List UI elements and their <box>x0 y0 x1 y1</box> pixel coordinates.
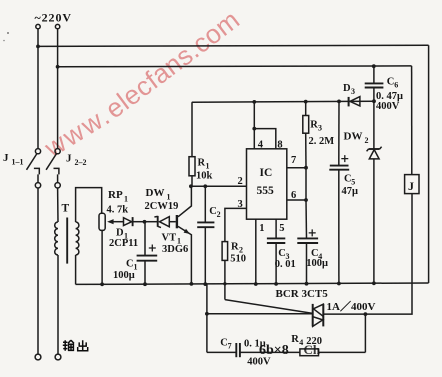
wire rail2 top <box>58 65 412 68</box>
wire right outer vertical <box>428 45 430 283</box>
svg-text:10k: 10k <box>196 170 213 181</box>
svg-text:8: 8 <box>277 140 282 151</box>
wire primary top <box>57 188 59 222</box>
svg-text:DW: DW <box>344 131 363 143</box>
svg-text:1: 1 <box>206 162 210 171</box>
svg-text:510: 510 <box>230 253 246 264</box>
wire right inner vertical <box>411 66 413 175</box>
speck <box>3 40 5 42</box>
speck <box>7 32 9 34</box>
thyristor BCR 3CT5 <box>313 304 324 327</box>
switch J1-1 <box>27 149 41 188</box>
svg-text:~220V: ~220V <box>35 11 72 25</box>
pin 8 wire <box>254 129 275 149</box>
svg-text:J: J <box>408 179 414 193</box>
node pin4 tap <box>252 100 256 104</box>
terminal L1 <box>36 24 40 28</box>
capacitor C5 <box>338 101 340 165</box>
svg-text:DW: DW <box>146 187 165 199</box>
capacitor C2 <box>204 186 206 222</box>
wire Vcc rail <box>192 101 374 102</box>
node pin7 <box>304 166 308 170</box>
pin 6 wire <box>287 199 306 201</box>
svg-text:1A／400V: 1A／400V <box>327 300 376 313</box>
svg-text:2–2: 2–2 <box>75 158 87 167</box>
svg-text:R: R <box>310 120 318 131</box>
svg-text:2CP11: 2CP11 <box>109 238 138 249</box>
node R3 tap <box>304 100 308 104</box>
svg-text:J: J <box>66 153 72 165</box>
wire pin2 horizontal <box>191 185 247 187</box>
output terminal right <box>55 354 61 360</box>
node pin4/8 <box>252 127 256 131</box>
transformer core <box>66 218 68 264</box>
pin 5 wire <box>275 219 277 238</box>
node C6 rail2 <box>372 64 376 68</box>
node C1 rail <box>143 282 147 286</box>
svg-text:C: C <box>126 259 134 270</box>
wiper arrow RP1 <box>113 221 124 223</box>
wire triac anode <box>207 313 313 315</box>
wire bottom rail <box>76 283 429 284</box>
svg-text:6b×8: 6b×8 <box>259 343 289 358</box>
node C5 rail <box>337 282 341 286</box>
svg-text:2: 2 <box>217 210 221 219</box>
svg-text:4. 7k: 4. 7k <box>107 205 129 216</box>
transformer T primary <box>55 222 58 255</box>
pin 1 wire <box>255 219 257 284</box>
node C2 rail <box>203 282 207 286</box>
wire left down to output <box>37 188 39 354</box>
svg-text:RP: RP <box>108 189 123 201</box>
svg-text:3: 3 <box>238 199 243 210</box>
svg-text:1: 1 <box>124 195 128 204</box>
svg-text:3: 3 <box>318 124 322 133</box>
svg-text:1: 1 <box>259 223 264 234</box>
resistor R1 <box>189 157 195 176</box>
svg-text:1–1: 1–1 <box>12 158 24 167</box>
svg-text:R: R <box>198 158 206 169</box>
wire secondary bottom <box>75 255 77 284</box>
svg-text:400V: 400V <box>247 356 271 367</box>
relay coil J box <box>405 175 419 194</box>
svg-text:6: 6 <box>291 190 296 201</box>
svg-text:3DG6: 3DG6 <box>162 244 188 255</box>
node C2 tap <box>203 184 207 188</box>
svg-text:400V: 400V <box>376 101 400 112</box>
capacitor C4 <box>297 237 318 239</box>
node DW2 rail <box>372 281 376 285</box>
node snubber right <box>364 312 368 316</box>
wire rail1 top <box>38 45 429 46</box>
wire secondary top link <box>76 188 102 222</box>
svg-text:555: 555 <box>257 185 275 197</box>
node pin6 <box>304 198 308 202</box>
svg-text:5: 5 <box>279 223 284 234</box>
node R2 rail crossing <box>223 282 226 285</box>
svg-text:2. 2M: 2. 2M <box>309 136 335 147</box>
zener DW2 <box>367 101 382 283</box>
diode D1 <box>124 218 132 226</box>
label 输出 (output, hand-drawn glyphs) <box>63 340 88 351</box>
node emitter rail <box>190 282 194 286</box>
wire pin7 to pin6 <box>305 168 307 200</box>
svg-text:BCR 3CT5: BCR 3CT5 <box>276 288 329 300</box>
wire J to cathode <box>323 194 412 315</box>
capacitor C3 <box>267 237 285 239</box>
snubber wire left <box>206 284 208 353</box>
node snubber tap <box>205 312 209 316</box>
node RP1 rail <box>100 282 104 286</box>
wire L2 down <box>57 29 59 149</box>
svg-text:4: 4 <box>258 140 264 151</box>
resistor R4 <box>300 349 319 356</box>
resistor R2 <box>222 242 228 261</box>
svg-text:2CW19: 2CW19 <box>145 201 179 212</box>
node D1 out <box>143 220 147 224</box>
svg-text:100μ: 100μ <box>113 270 135 281</box>
terminal L2 <box>55 24 59 28</box>
svg-text:VT: VT <box>162 233 177 244</box>
wire RP1 bottom <box>101 230 103 284</box>
pin 3 wire <box>225 208 247 241</box>
node rail1 tap <box>36 45 40 49</box>
switch J2-2 <box>46 149 60 188</box>
capacitor C7 <box>207 351 236 353</box>
output terminal left <box>35 354 41 360</box>
svg-text:7: 7 <box>291 155 296 166</box>
node C5 tap <box>337 100 341 104</box>
node R1/VT1 <box>189 184 193 188</box>
transformer T secondary <box>76 222 79 255</box>
transistor VT1 <box>177 186 192 284</box>
node rail2 tap <box>56 65 60 69</box>
pin 4 wire <box>253 102 255 149</box>
svg-text:7: 7 <box>228 342 232 351</box>
diode D3 <box>348 97 350 107</box>
svg-text:47μ: 47μ <box>342 186 359 197</box>
capacitor C6 <box>373 66 375 83</box>
potentiometer RP1 <box>99 213 105 230</box>
watermark www.elecfans.com <box>39 4 246 163</box>
op IC 555 box <box>247 149 287 219</box>
svg-text:6: 6 <box>394 81 398 90</box>
capacitor C1 <box>137 255 158 257</box>
svg-text:R: R <box>291 334 299 345</box>
wire L1 down <box>37 29 39 149</box>
node pin1 rail <box>254 282 258 286</box>
svg-text:D: D <box>343 83 351 94</box>
svg-text:3: 3 <box>351 87 355 96</box>
wire primary bottom to output <box>57 255 59 354</box>
svg-text:R: R <box>231 242 239 253</box>
pin 7 wire <box>287 167 306 169</box>
wire pin6 to C4 <box>305 200 308 238</box>
node C4 rail <box>305 282 309 286</box>
svg-text:IC: IC <box>260 167 273 179</box>
svg-text:100μ: 100μ <box>306 258 328 269</box>
svg-text:Ch: Ch <box>304 342 321 357</box>
wire node to C1 <box>144 222 146 256</box>
svg-text:2: 2 <box>238 176 243 187</box>
node D3/C6/DW2 <box>372 99 376 103</box>
wire R2 to gate diagonal <box>224 260 226 299</box>
resistor R3 <box>303 116 309 134</box>
svg-text:J: J <box>3 152 9 164</box>
svg-text:T: T <box>62 203 70 215</box>
zener DW1 <box>145 216 176 228</box>
svg-text:2: 2 <box>365 136 369 145</box>
svg-text:0. 01: 0. 01 <box>275 259 296 270</box>
node C3 rail <box>274 282 278 286</box>
